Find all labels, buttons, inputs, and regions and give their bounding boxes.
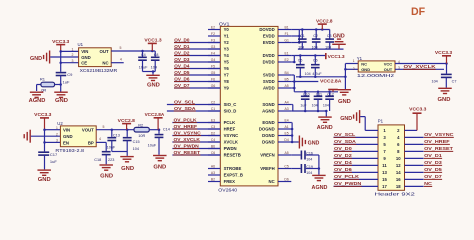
svg-text:D6: D6 — [284, 178, 288, 182]
svg-text:OV_SCL: OV_SCL — [174, 99, 195, 104]
svg-text:GND: GND — [100, 173, 113, 179]
svg-text:C9: C9 — [67, 72, 73, 77]
svg-text:2: 2 — [56, 133, 58, 137]
svg-text:OV_D4: OV_D4 — [334, 160, 352, 165]
svg-text:C19: C19 — [306, 165, 313, 169]
capacitor C17 1uF — [44, 142, 46, 151]
svg-text:GND: GND — [308, 140, 320, 146]
svg-text:EVDD: EVDD — [263, 34, 275, 39]
wire VCC3.3 to U1 pins 1,3 — [60, 51, 62, 62]
svg-text:A3: A3 — [285, 107, 289, 111]
svg-text:XC6219B132MR: XC6219B132MR — [80, 68, 118, 73]
svg-text:VIN: VIN — [81, 49, 88, 54]
capacitor C16 104 (VREFN) — [291, 154, 300, 156]
svg-text:OV_HREF: OV_HREF — [174, 124, 198, 129]
svg-text:VCC2.8: VCC2.8 — [118, 118, 135, 124]
svg-text:VREFN: VREFN — [260, 153, 274, 158]
ground AGND (below R1) — [30, 91, 43, 93]
svg-text:Y9: Y9 — [224, 86, 230, 91]
svg-text:C14: C14 — [163, 128, 170, 132]
svg-text:VCC2.8: VCC2.8 — [316, 18, 333, 23]
capacitor C12 104 — [329, 92, 331, 97]
net label OV_SDA (IC side) — [167, 110, 220, 112]
svg-text:GND: GND — [338, 99, 351, 105]
svg-text:OV_XVCLK: OV_XVCLK — [174, 137, 201, 142]
svg-text:VCC2.8A: VCC2.8A — [320, 78, 342, 83]
svg-text:D4: D4 — [284, 138, 288, 142]
svg-text:OV_VSYNC: OV_VSYNC — [174, 130, 202, 135]
svg-text:C8: C8 — [154, 53, 159, 57]
svg-text:OV_SCL: OV_SCL — [334, 132, 355, 137]
svg-text:10uF: 10uF — [107, 146, 116, 150]
svg-text:A3: A3 — [211, 171, 215, 175]
svg-text:NC: NC — [102, 61, 108, 66]
capacitor C10 1uF — [304, 92, 306, 97]
svg-text:P1: P1 — [378, 119, 384, 124]
svg-text:HREF: HREF — [224, 127, 236, 132]
wire DVDD join — [291, 55, 294, 57]
svg-text:OV_D7: OV_D7 — [174, 83, 190, 88]
svg-text:XVCLK: XVCLK — [224, 140, 239, 145]
capacitor C5 104 — [299, 56, 301, 65]
capacitor C3 104 — [329, 30, 331, 40]
svg-text:VCC2.8A: VCC2.8A — [145, 112, 165, 117]
ground GND (below C7) — [438, 87, 452, 89]
svg-text:104: 104 — [312, 104, 318, 108]
svg-text:GND: GND — [153, 165, 166, 171]
svg-text:C5: C5 — [298, 59, 303, 63]
svg-text:NC: NC — [269, 179, 275, 184]
net labels OV_PCLK..OV_RESET (IC side wires) — [172, 122, 220, 124]
svg-text:CE: CE — [81, 61, 87, 66]
svg-text:AGND: AGND — [262, 109, 275, 114]
capacitor C15 104 — [126, 130, 128, 137]
svg-text:VCC3.3: VCC3.3 — [435, 50, 452, 56]
svg-text:VCC3.3: VCC3.3 — [34, 112, 51, 118]
svg-text:SIO_D: SIO_D — [224, 109, 237, 114]
wire DOVDD/EVDD join — [291, 29, 299, 31]
capacitor C18 223 — [102, 151, 111, 153]
net labels OV_D0-OV_D7 (IC side wires) — [174, 42, 220, 44]
svg-text:C1: C1 — [300, 34, 305, 38]
svg-text:17: 17 — [382, 184, 387, 189]
svg-text:GND: GND — [81, 55, 91, 60]
svg-text:GND: GND — [340, 116, 352, 122]
svg-text:OV_D3: OV_D3 — [424, 160, 442, 165]
svg-text:OV2640: OV2640 — [218, 187, 237, 192]
svg-text:1: 1 — [353, 59, 355, 63]
svg-text:A5: A5 — [285, 151, 289, 155]
svg-text:Y4: Y4 — [224, 53, 230, 58]
svg-text:104: 104 — [323, 104, 329, 108]
capacitor C7 104 — [446, 64, 448, 74]
svg-text:OV_D7: OV_D7 — [424, 174, 442, 179]
ground AGND (bank3) — [318, 116, 332, 118]
svg-text:2: 2 — [72, 53, 74, 57]
svg-text:DVDD: DVDD — [263, 53, 275, 58]
svg-text:4: 4 — [99, 137, 101, 141]
svg-text:VCC1.3: VCC1.3 — [328, 54, 345, 60]
svg-text:SIO_C: SIO_C — [224, 102, 237, 107]
capacitor C9 1uF — [60, 63, 62, 72]
svg-text:C11: C11 — [316, 92, 322, 96]
svg-text:OV_RESET: OV_RESET — [424, 146, 453, 151]
svg-text:3: 3 — [72, 59, 74, 63]
svg-text:FREX: FREX — [224, 179, 236, 184]
svg-text:VCC: VCC — [384, 62, 393, 67]
svg-text:BP: BP — [88, 140, 94, 145]
svg-text:4: 4 — [120, 58, 122, 62]
svg-text:A1: A1 — [285, 125, 289, 129]
capacitor C2 104 — [315, 30, 317, 40]
ground GND (below C9) — [54, 91, 68, 93]
svg-text:DOGND: DOGND — [259, 127, 275, 132]
svg-text:RT9193-2.8: RT9193-2.8 — [55, 148, 84, 153]
svg-text:NC: NC — [361, 62, 367, 67]
svg-text:U1: U1 — [78, 42, 84, 47]
svg-text:VCC1.3: VCC1.3 — [144, 38, 161, 44]
power VCC3.3 (U2 input) — [40, 117, 49, 119]
svg-text:OV_D6: OV_D6 — [334, 167, 352, 172]
svg-text:E4: E4 — [285, 119, 289, 123]
svg-text:OV_D1: OV_D1 — [424, 153, 442, 158]
svg-text:18: 18 — [396, 184, 401, 189]
svg-text:GND: GND — [121, 166, 134, 172]
svg-text:VREFH: VREFH — [260, 166, 274, 171]
ground GND (below C17) — [37, 169, 51, 171]
svg-text:EGND: EGND — [262, 120, 274, 125]
net labels header left (OV_SCL..OV_PWDN) — [334, 136, 379, 138]
svg-text:U2: U2 — [57, 121, 63, 126]
svg-text:Y0: Y0 — [224, 27, 230, 32]
svg-text:OUT: OUT — [100, 49, 109, 54]
svg-text:PCLK: PCLK — [224, 120, 237, 125]
svg-text:E2: E2 — [211, 26, 215, 30]
oscillator Y1 12.000MHz — [358, 61, 395, 72]
svg-text:C6: C6 — [313, 59, 318, 63]
svg-text:1uF: 1uF — [63, 79, 70, 84]
power VCC2.8A (above C14) — [154, 117, 163, 119]
svg-text:GND: GND — [63, 134, 73, 139]
svg-text:SGND: SGND — [262, 102, 274, 107]
svg-text:SVDD: SVDD — [263, 73, 275, 78]
svg-text:G1: G1 — [284, 39, 289, 43]
svg-text:1uF: 1uF — [300, 104, 307, 108]
svg-text:C17: C17 — [50, 152, 58, 157]
wire EGND/DGND join — [290, 122, 293, 124]
wire bank2 bottom rail (to crystal gnd) — [296, 76, 345, 78]
svg-text:3: 3 — [56, 139, 58, 143]
svg-text:104: 104 — [151, 66, 157, 70]
svg-text:DVDD: DVDD — [263, 60, 275, 65]
svg-text:10R: 10R — [138, 134, 145, 138]
ground AGND (VREF) — [312, 174, 326, 176]
power VCC1.3 (bank2 label) — [325, 53, 327, 59]
capacitor C11 104 — [317, 92, 319, 97]
ground GND (below C14) — [153, 155, 167, 157]
regulator U1 XC6219B132MR — [79, 48, 112, 67]
svg-text:223: 223 — [108, 158, 114, 162]
capacitor C8 104 — [154, 51, 156, 57]
svg-text:DGND: DGND — [262, 133, 275, 138]
svg-text:EXPST_B: EXPST_B — [224, 173, 243, 178]
svg-text:OV_VSYNC: OV_VSYNC — [424, 132, 454, 137]
svg-text:104: 104 — [305, 72, 311, 76]
svg-text:15: 15 — [382, 177, 387, 182]
svg-text:10uF: 10uF — [139, 66, 148, 70]
svg-text:OV_D5: OV_D5 — [424, 167, 442, 172]
svg-text:OV_D5: OV_D5 — [174, 70, 190, 75]
svg-text:B2: B2 — [211, 178, 215, 182]
svg-text:4.7uF: 4.7uF — [312, 72, 322, 76]
wire bank1 bottom rail — [298, 48, 344, 50]
svg-text:OV_D2: OV_D2 — [174, 50, 190, 55]
svg-text:VCC3.3: VCC3.3 — [52, 39, 69, 45]
svg-text:104: 104 — [306, 158, 312, 162]
op-amp U-OV1 sensor OV2640 — [220, 26, 278, 186]
capacitor C4 10uF — [142, 51, 144, 57]
svg-text:A4: A4 — [285, 101, 289, 105]
svg-text:F2: F2 — [211, 32, 215, 36]
svg-text:C10: C10 — [303, 92, 310, 96]
svg-text:104: 104 — [306, 171, 312, 175]
wire C13-C15 bottom rail — [112, 151, 127, 153]
ground GND (below C18) — [99, 164, 113, 166]
svg-text:A6: A6 — [211, 165, 215, 169]
svg-text:OV_PWDN: OV_PWDN — [334, 181, 362, 186]
regulator U2 RT9193-2.8 — [60, 126, 96, 147]
svg-text:C16: C16 — [306, 151, 313, 155]
net label OV_SCL (IC side) — [167, 104, 220, 106]
svg-text:Y1: Y1 — [357, 56, 363, 61]
svg-text:B4: B4 — [285, 71, 289, 75]
svg-text:OV_D0: OV_D0 — [334, 146, 352, 151]
svg-text:OV_PCLK: OV_PCLK — [334, 174, 360, 179]
svg-text:C13: C13 — [113, 134, 120, 138]
svg-text:C4: C4 — [141, 53, 146, 57]
svg-text:C12: C12 — [327, 92, 334, 96]
svg-text:OV_SDA: OV_SDA — [174, 106, 196, 111]
svg-text:1uF: 1uF — [50, 159, 57, 164]
svg-text:13: 13 — [382, 170, 387, 175]
svg-text:C5: C5 — [284, 165, 288, 169]
svg-text:VIN: VIN — [63, 128, 70, 133]
wire VREF bus to AGND — [318, 155, 320, 169]
capacitor C19 104 (VREFH) — [291, 168, 300, 170]
wire C4-C8 bottom rail — [143, 71, 156, 73]
svg-text:SVDD: SVDD — [263, 79, 275, 84]
resistor R1 0R — [37, 84, 41, 86]
svg-text:OV_PWDN: OV_PWDN — [174, 143, 200, 148]
svg-text:E1: E1 — [285, 52, 289, 56]
ground GND (sideways, DGND) — [298, 136, 300, 149]
ground GND (below crystal) — [337, 89, 351, 91]
svg-text:OV_SDA: OV_SDA — [334, 139, 357, 144]
svg-text:OV_HREF: OV_HREF — [424, 139, 450, 144]
svg-text:C7: C7 — [452, 79, 457, 83]
svg-text:16: 16 — [396, 177, 401, 182]
svg-text:OV_D4: OV_D4 — [174, 63, 190, 68]
svg-text:STROBE: STROBE — [224, 166, 242, 171]
svg-text:Y1: Y1 — [224, 34, 230, 39]
svg-text:OV_D3: OV_D3 — [174, 57, 190, 62]
svg-text:EVDD: EVDD — [263, 40, 275, 45]
svg-text:10uF: 10uF — [148, 144, 157, 148]
svg-text:B1: B1 — [285, 26, 289, 30]
ground GND (below C4/C8) — [146, 74, 160, 76]
power VCC2.8 — [122, 123, 131, 125]
svg-text:RESETB: RESETB — [224, 153, 241, 158]
svg-text:Header 9X2: Header 9X2 — [375, 191, 416, 197]
svg-text:GND: GND — [55, 98, 68, 104]
svg-text:C2: C2 — [313, 34, 318, 38]
svg-text:VOUT: VOUT — [82, 128, 94, 133]
svg-text:EN: EN — [63, 140, 69, 145]
svg-text:104: 104 — [133, 147, 139, 151]
svg-text:E5: E5 — [285, 132, 289, 136]
svg-text:OV_D6: OV_D6 — [174, 76, 190, 81]
svg-text:14: 14 — [396, 170, 401, 175]
svg-text:Y5: Y5 — [224, 60, 230, 65]
net label OV_XVCLK — [395, 68, 444, 70]
wire SVDD/AVDD join — [291, 74, 294, 76]
ground GND (sideways, U2 pin2) — [29, 130, 31, 143]
svg-text:R1: R1 — [40, 77, 46, 82]
svg-text:AGND: AGND — [29, 98, 46, 104]
svg-text:OUT: OUT — [384, 67, 393, 72]
svg-text:11: 11 — [382, 163, 387, 168]
svg-text:R2: R2 — [138, 123, 143, 127]
svg-text:DF: DF — [411, 6, 425, 18]
svg-text:GND: GND — [361, 67, 370, 72]
svg-text:A5: A5 — [285, 84, 289, 88]
wire Y1 VCC pin4 — [395, 63, 447, 65]
capacitor C14 10uF — [158, 130, 160, 134]
svg-text:OV_PCLK: OV_PCLK — [174, 117, 198, 122]
svg-text:GND: GND — [38, 177, 51, 183]
resistor R2 10R — [134, 127, 149, 132]
svg-text:C18: C18 — [94, 158, 101, 162]
svg-text:C3: C3 — [327, 34, 332, 38]
svg-text:AVDD: AVDD — [263, 86, 275, 91]
svg-text:Y7: Y7 — [224, 73, 230, 78]
wire VCC3.3 to U2 pins 1,3 — [44, 130, 46, 143]
svg-text:DGND: DGND — [262, 140, 275, 145]
connector P1 Header 9X2 — [378, 125, 405, 190]
svg-text:10: 10 — [396, 156, 401, 161]
svg-text:12: 12 — [396, 163, 401, 168]
svg-text:OV_D1: OV_D1 — [174, 44, 190, 49]
svg-text:OV_D0: OV_D0 — [174, 37, 190, 42]
capacitor C1 104 — [301, 30, 303, 40]
svg-text:NC: NC — [424, 181, 432, 186]
capacitor C13 10uF — [111, 130, 113, 137]
svg-text:GND: GND — [147, 83, 160, 89]
svg-text:Y6: Y6 — [224, 66, 230, 71]
svg-text:1: 1 — [56, 126, 58, 130]
svg-text:DOVDD: DOVDD — [259, 27, 274, 32]
net labels header right (OV_VSYNC..NC) — [405, 136, 424, 138]
svg-text:104: 104 — [431, 79, 437, 83]
power VCC3.3 (U1 input) — [56, 44, 65, 46]
svg-text:F1: F1 — [285, 32, 289, 36]
svg-text:5: 5 — [120, 46, 122, 50]
ground GND (below C13/C15) — [120, 156, 134, 158]
svg-text:VSYNC: VSYNC — [224, 133, 239, 138]
svg-text:OV1: OV1 — [219, 21, 230, 26]
svg-text:12.000MHz: 12.000MHz — [357, 73, 395, 78]
wire SGND/AGND rail — [291, 104, 293, 106]
svg-text:GND: GND — [438, 97, 451, 103]
svg-text:GND: GND — [30, 56, 42, 62]
svg-text:AGND: AGND — [317, 125, 333, 131]
power VCC3.3 (crystal) — [442, 55, 451, 57]
power VCC1.3 — [148, 42, 157, 44]
svg-text:OV_XVCLK: OV_XVCLK — [404, 64, 437, 69]
wire crystal left pins to gnd — [345, 63, 358, 65]
svg-text:E2: E2 — [285, 58, 289, 62]
svg-text:2: 2 — [353, 67, 355, 71]
svg-text:B5: B5 — [285, 78, 289, 82]
svg-text:OV_D2: OV_D2 — [334, 153, 352, 158]
capacitor C6 4.7uF — [314, 56, 316, 65]
svg-text:Y3: Y3 — [224, 47, 230, 52]
svg-text:5: 5 — [103, 125, 105, 129]
power VCC3.3 (header pin2) — [405, 129, 418, 131]
power VCC2.8 (bank1) — [318, 23, 327, 25]
svg-text:Y8: Y8 — [224, 79, 230, 84]
svg-text:OV_RESET: OV_RESET — [174, 150, 201, 155]
svg-text:Y2: Y2 — [224, 40, 230, 45]
svg-text:C15: C15 — [133, 140, 140, 144]
svg-text:PWDN: PWDN — [224, 146, 237, 151]
svg-text:VCC3.3: VCC3.3 — [409, 107, 426, 113]
svg-text:AGND: AGND — [312, 185, 328, 191]
svg-text:1: 1 — [72, 48, 74, 52]
